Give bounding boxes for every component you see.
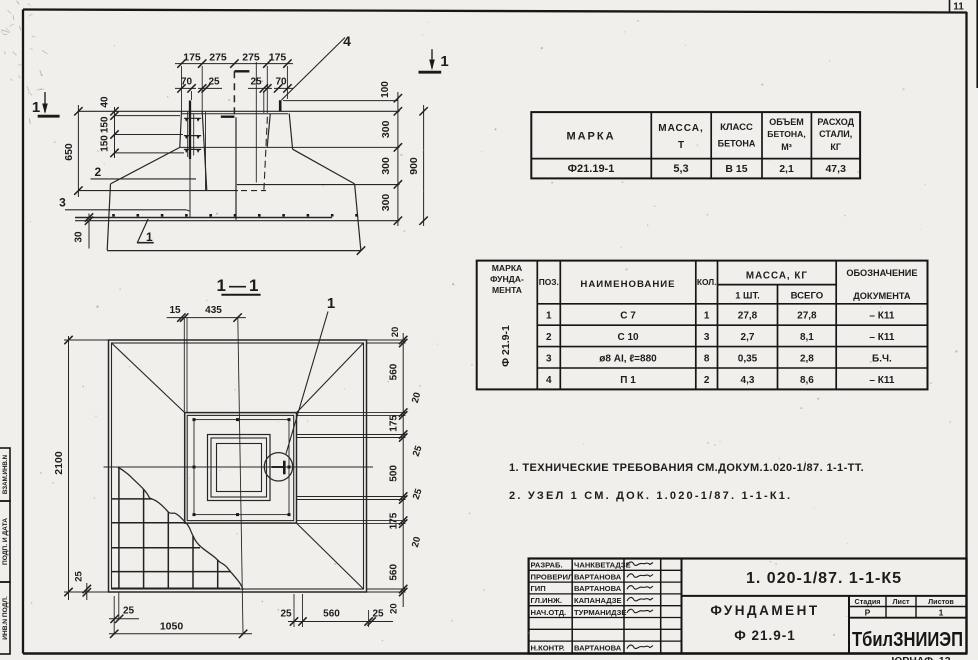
section: left foundation pedestal left edge bbox=[180, 111, 182, 147]
section: right foundation pedestal left edge dashed bbox=[264, 117, 268, 190]
section: level line 150 lower bbox=[115, 152, 185, 154]
svg-text:КЛАСС: КЛАСС bbox=[720, 122, 753, 133]
section: dimension 25 left bbox=[198, 87, 222, 89]
svg-text:ТУРМАНИДЗЕ: ТУРМАНИДЗЕ bbox=[574, 608, 626, 617]
left margin box ИНВ.N ПОДЛ. bbox=[0, 582, 10, 654]
svg-text:2100: 2100 bbox=[53, 451, 65, 475]
section: level line 300 right bbox=[180, 146, 400, 148]
plan: right chain extension lines bbox=[367, 339, 406, 341]
plan: break line wavy bbox=[118, 467, 243, 590]
svg-text:27,8: 27,8 bbox=[797, 311, 817, 322]
svg-text:– К11: – К11 bbox=[869, 332, 894, 343]
svg-text:Листов: Листов bbox=[928, 597, 954, 606]
svg-text:Лист: Лист bbox=[893, 597, 910, 606]
title block name cell bbox=[848, 596, 850, 654]
section: top dimension line 175 275 275 175 bbox=[175, 63, 293, 65]
svg-text:500: 500 bbox=[389, 465, 400, 482]
svg-text:МАРКА: МАРКА bbox=[492, 263, 523, 273]
section: level line 150 upper bbox=[115, 134, 184, 136]
svg-text:1: 1 bbox=[146, 230, 153, 244]
section: deep pit bottom line bbox=[107, 250, 361, 252]
table 2: column lines bbox=[536, 261, 538, 390]
svg-text:1: 1 bbox=[939, 608, 944, 618]
svg-text:НАЧ.ОТД.: НАЧ.ОТД. bbox=[531, 608, 567, 617]
svg-text:ГЛ.ИНЖ.: ГЛ.ИНЖ. bbox=[531, 596, 562, 605]
svg-text:ФУНДАМЕНТ: ФУНДАМЕНТ bbox=[710, 603, 819, 618]
plan: diagonal bottom-right bbox=[297, 523, 364, 589]
svg-text:2: 2 bbox=[546, 332, 552, 343]
svg-text:11: 11 bbox=[953, 2, 964, 13]
svg-text:435: 435 bbox=[205, 305, 222, 316]
scan noise bbox=[624, 31, 625, 32]
svg-text:175: 175 bbox=[389, 512, 400, 529]
svg-text:560: 560 bbox=[389, 564, 400, 581]
svg-text:В 15: В 15 bbox=[725, 163, 747, 175]
svg-text:3: 3 bbox=[59, 196, 66, 210]
section: dimension 25 right bbox=[248, 87, 272, 89]
svg-text:1 ШТ.: 1 ШТ. bbox=[735, 290, 760, 301]
svg-text:ВАРТАНОВА: ВАРТАНОВА bbox=[574, 644, 622, 653]
section: stub top line 100 bbox=[283, 100, 398, 102]
section: position marker 1 triangle bbox=[137, 219, 148, 243]
svg-text:ВАРТАНОВА: ВАРТАНОВА bbox=[574, 572, 622, 581]
svg-text:Ф 21.9-1: Ф 21.9-1 bbox=[734, 628, 796, 643]
section: level line 40 bbox=[115, 115, 181, 117]
svg-text:– К11: – К11 bbox=[869, 375, 894, 386]
drawing frame bbox=[23, 10, 967, 13]
svg-text:МЕНТА: МЕНТА bbox=[492, 285, 522, 295]
svg-text:КОЛ.: КОЛ. bbox=[697, 277, 717, 287]
section: leader 4 line bbox=[282, 38, 346, 101]
svg-text:МАССА, КГ: МАССА, КГ bbox=[746, 271, 808, 282]
svg-text:150: 150 bbox=[100, 116, 111, 133]
svg-text:ø8 АI, ℓ=880: ø8 АI, ℓ=880 bbox=[599, 354, 657, 365]
svg-text:С 10: С 10 bbox=[617, 332, 639, 343]
svg-text:8,1: 8,1 bbox=[800, 332, 814, 343]
svg-text:2,1: 2,1 bbox=[779, 163, 794, 175]
svg-text:275: 275 bbox=[242, 52, 260, 64]
svg-text:ПОДП. И ДАТА: ПОДП. И ДАТА bbox=[2, 518, 9, 565]
section: dimension chain 650 left bbox=[77, 105, 79, 197]
plan: outer square outer line bbox=[109, 340, 367, 592]
svg-text:Ф21.19-1: Ф21.19-1 bbox=[568, 163, 615, 175]
svg-text:ОБОЗНАЧЕНИЕ: ОБОЗНАЧЕНИЕ bbox=[846, 268, 917, 278]
svg-text:1050: 1050 bbox=[160, 621, 184, 633]
svg-text:300: 300 bbox=[380, 120, 392, 138]
svg-text:М³: М³ bbox=[781, 142, 792, 152]
table 2: header lines bbox=[718, 284, 837, 286]
svg-text:300: 300 bbox=[380, 157, 392, 175]
section: extension line left pedestal left bbox=[181, 66, 183, 111]
section: extension line 70 left bbox=[191, 91, 193, 100]
section: anchor stub right thick bbox=[279, 100, 282, 111]
plan: bottom dimension 25 left bbox=[109, 618, 139, 620]
section: tie hooks bbox=[184, 117, 201, 119]
svg-text:1: 1 bbox=[546, 311, 552, 322]
svg-text:2: 2 bbox=[704, 375, 710, 386]
svg-text:25: 25 bbox=[208, 77, 220, 88]
section: column edge / deep slab left edge bbox=[235, 117, 237, 220]
table 1: characteristics table bbox=[531, 112, 860, 178]
svg-text:275: 275 bbox=[209, 52, 227, 64]
svg-text:175: 175 bbox=[389, 415, 400, 432]
svg-text:8,6: 8,6 bbox=[800, 375, 814, 386]
svg-text:20: 20 bbox=[390, 327, 401, 338]
section: right foundation slope bbox=[293, 149, 355, 184]
svg-text:3: 3 bbox=[546, 354, 552, 365]
svg-text:27,8: 27,8 bbox=[738, 311, 758, 322]
section: extension line right pedestal left bbox=[266, 66, 268, 113]
section: dimension 30 bbox=[88, 214, 90, 249]
plan: horizontal centre line bbox=[104, 466, 374, 468]
svg-text:15: 15 bbox=[169, 305, 181, 316]
svg-text:ЧАНКВЕТАДЗЕ: ЧАНКВЕТАДЗЕ bbox=[574, 561, 631, 570]
svg-text:1: 1 bbox=[327, 295, 335, 312]
svg-text:Р: Р bbox=[865, 608, 871, 618]
section: extension line right pedestal right bbox=[286, 66, 288, 99]
title block vertical divider bbox=[681, 559, 683, 654]
plan: bottom dimension 1050 bbox=[109, 633, 252, 635]
svg-text:2,7: 2,7 bbox=[741, 332, 755, 343]
section: rebar line b bbox=[193, 114, 195, 156]
svg-text:560: 560 bbox=[389, 363, 400, 380]
plan: bottom extension lines bbox=[293, 594, 295, 627]
svg-text:25: 25 bbox=[250, 77, 262, 88]
svg-text:3: 3 bbox=[704, 332, 710, 343]
svg-text:150: 150 bbox=[100, 135, 111, 152]
svg-text:ПРОВЕРИЛ: ПРОВЕРИЛ bbox=[531, 572, 574, 581]
section mark right: arrow and bar bbox=[419, 71, 442, 74]
svg-text:40: 40 bbox=[100, 96, 111, 108]
svg-text:БЕТОНА: БЕТОНА bbox=[718, 139, 756, 149]
svg-text:100: 100 bbox=[380, 81, 391, 98]
svg-text:1: 1 bbox=[704, 311, 710, 322]
section: rebar dots in slab bbox=[112, 214, 115, 217]
plan: mesh grid verticals bbox=[118, 468, 120, 589]
plan: detail symbol horizontal bbox=[272, 466, 284, 468]
section: right dimension chain 100 300 300 300 bbox=[397, 92, 399, 226]
plan: socket outer square bbox=[208, 435, 271, 501]
svg-text:ФУНДА-: ФУНДА- bbox=[490, 274, 524, 284]
plan: left dimension 2100 bbox=[68, 336, 70, 600]
plan: bottom dimension 25 560 25 bbox=[288, 621, 393, 623]
svg-text:300: 300 bbox=[380, 194, 392, 212]
section: column axis dashed bbox=[233, 71, 235, 116]
svg-text:25: 25 bbox=[280, 609, 292, 620]
svg-text:8: 8 bbox=[704, 354, 710, 365]
svg-text:1. ТЕХНИЧЕСКИЕ ТРЕБОВАНИЯ СМ: 1. ТЕХНИЧЕСКИЕ ТРЕБОВАНИЯ СМ.ДОКУМ.1.020… bbox=[509, 462, 864, 474]
section: column centre thin line bbox=[255, 62, 257, 183]
svg-text:Т: Т bbox=[678, 140, 684, 151]
section: anchor bolt left thick bbox=[189, 101, 191, 160]
plan: detail symbol bar bbox=[283, 461, 286, 475]
section: right foundation side edge bbox=[355, 184, 361, 251]
section: slab bottom lower line bbox=[75, 220, 400, 222]
plan: top dimension 15 435 bbox=[167, 317, 246, 319]
svg-text:– К11: – К11 bbox=[869, 311, 894, 322]
section: column break bracket top bbox=[234, 70, 249, 72]
plan: detail leader line bbox=[286, 312, 328, 454]
svg-text:СТАЛИ,: СТАЛИ, bbox=[819, 129, 852, 139]
section: dimension 70 left bbox=[175, 87, 196, 89]
section: left foundation pedestal right edge bbox=[202, 111, 207, 190]
svg-text:5,3: 5,3 bbox=[673, 163, 688, 175]
title block signatures bbox=[627, 562, 653, 566]
title block stage list cells bbox=[849, 606, 967, 608]
svg-text:БЕТОНА,: БЕТОНА, bbox=[767, 129, 805, 139]
section: pedestal top inner line bbox=[181, 113, 288, 115]
svg-text:1—1: 1—1 bbox=[217, 276, 262, 295]
section: right foundation pedestal right edge bbox=[289, 113, 292, 149]
svg-text:Б.Ч.: Б.Ч. bbox=[872, 354, 892, 365]
svg-text:70: 70 bbox=[275, 77, 287, 88]
svg-text:1: 1 bbox=[440, 53, 448, 70]
svg-text:ВАРТАНОВА: ВАРТАНОВА bbox=[574, 584, 622, 593]
svg-text:ЮРНАФ. 12: ЮРНАФ. 12 bbox=[891, 655, 950, 660]
svg-text:2: 2 bbox=[94, 165, 101, 179]
section: extension line left pedestal right bbox=[201, 66, 203, 111]
plan: vertical centre line bbox=[238, 318, 243, 633]
section mark left: arrow and bar bbox=[38, 115, 60, 118]
svg-text:4: 4 bbox=[343, 33, 351, 49]
title block document number bbox=[682, 595, 967, 597]
plan: right dimension chain bbox=[402, 333, 404, 607]
section: level dimension column 40 150 150 bbox=[114, 107, 116, 158]
section: dimension 70 right bbox=[274, 87, 293, 89]
svg-text:30: 30 bbox=[74, 231, 85, 243]
svg-text:РАСХОД: РАСХОД bbox=[817, 117, 854, 127]
svg-text:2. УЗЕЛ 1 СМ. ДОК. 1.020-1: 2. УЗЕЛ 1 СМ. ДОК. 1.020-1/87. 1-1-К1. bbox=[509, 490, 792, 502]
svg-text:25: 25 bbox=[74, 571, 85, 582]
section: column break bracket bottom bbox=[221, 115, 235, 117]
left margin box ПОДП. И ДАТА bbox=[0, 501, 10, 582]
svg-text:П 1: П 1 bbox=[620, 375, 636, 386]
section: left foundation slope bbox=[111, 147, 180, 184]
svg-text:ВЗАМ.ИНВ.N: ВЗАМ.ИНВ.N bbox=[2, 454, 9, 494]
svg-text:47,3: 47,3 bbox=[825, 163, 846, 175]
plan: socket middle square bbox=[211, 438, 267, 497]
plan: socket inner square bbox=[217, 444, 262, 492]
section: right foundation pedestal left edge solid bbox=[267, 114, 270, 148]
page number box 11 bbox=[949, 0, 951, 12]
svg-text:560: 560 bbox=[323, 609, 340, 620]
section: deep foundation slab top bbox=[237, 184, 400, 186]
svg-text:ИНВ.N ПОДЛ.: ИНВ.N ПОДЛ. bbox=[2, 596, 9, 640]
svg-text:4: 4 bbox=[546, 375, 552, 386]
svg-text:С 7: С 7 bbox=[620, 311, 636, 322]
plan: detail circle bbox=[264, 453, 292, 481]
left margin box ВЗАМ.ИНВ.N bbox=[0, 448, 10, 501]
svg-text:МАРКА: МАРКА bbox=[566, 131, 615, 143]
section: rebar line c bbox=[205, 112, 207, 190]
svg-text:РАЗРАБ.: РАЗРАБ. bbox=[531, 561, 563, 570]
section: slab bottom upper line bbox=[75, 217, 332, 219]
section: dimension 900 bbox=[423, 105, 425, 226]
section: anchor bolt left thin continuation bbox=[189, 159, 191, 217]
svg-text:650: 650 bbox=[63, 143, 75, 161]
plan: middle square outer line bbox=[185, 413, 297, 523]
section: ground line bbox=[78, 110, 399, 112]
svg-text:4,3: 4,3 bbox=[741, 375, 755, 386]
table 2: specification table bbox=[477, 261, 928, 390]
svg-text:1: 1 bbox=[32, 99, 40, 116]
svg-text:Н.КОНТР.: Н.КОНТР. bbox=[531, 644, 565, 653]
svg-text:2,8: 2,8 bbox=[800, 354, 814, 365]
plan: left dimension 25 bbox=[86, 583, 88, 600]
svg-text:ТбилЗНИИЭП: ТбилЗНИИЭП bbox=[852, 628, 963, 651]
section: left foundation side below slope bbox=[107, 184, 110, 250]
svg-text:175: 175 bbox=[183, 52, 201, 64]
svg-text:ГИП: ГИП bbox=[531, 584, 546, 593]
svg-text:КАПАНАДЗЕ: КАПАНАДЗЕ bbox=[574, 596, 622, 605]
plan: diagonal top-left bbox=[112, 343, 185, 413]
table 2: row lines bbox=[537, 324, 927, 326]
svg-text:МАССА,: МАССА, bbox=[658, 123, 704, 134]
title block signature rows bbox=[529, 569, 682, 571]
plan: rebar dots bbox=[193, 418, 196, 421]
svg-text:НАИМЕНОВАНИЕ: НАИМЕНОВАНИЕ bbox=[580, 279, 675, 290]
svg-text:70: 70 bbox=[181, 77, 193, 88]
section: shallow slab top dashed continuation bbox=[241, 190, 266, 192]
plan: outer square inner line bbox=[112, 343, 364, 589]
svg-text:25: 25 bbox=[123, 606, 135, 617]
svg-text:ВСЕГО: ВСЕГО bbox=[791, 291, 824, 302]
section: extension line 25 right bbox=[263, 91, 265, 113]
svg-text:ДОКУМЕНТА: ДОКУМЕНТА bbox=[853, 291, 911, 301]
section: shallow foundation slab top solid bbox=[78, 190, 238, 192]
svg-text:900: 900 bbox=[408, 157, 420, 175]
title block outline bbox=[529, 559, 967, 654]
svg-text:КГ: КГ bbox=[830, 142, 841, 152]
section: rebar line a bbox=[187, 112, 189, 157]
svg-text:0,35: 0,35 bbox=[738, 354, 758, 365]
plan: mesh grid horizontals bbox=[112, 498, 152, 500]
plan: extension lines to top dimension bbox=[183, 318, 185, 413]
svg-text:20: 20 bbox=[389, 603, 400, 614]
svg-text:175: 175 bbox=[269, 52, 287, 64]
svg-text:ОБЪЕМ: ОБЪЕМ bbox=[769, 117, 803, 127]
svg-text:25: 25 bbox=[372, 609, 384, 620]
svg-text:Стадия: Стадия bbox=[855, 597, 881, 606]
svg-text:1. 020-1/87. 1-1-К5: 1. 020-1/87. 1-1-К5 bbox=[746, 570, 902, 587]
svg-text:Ф 21.9-1: Ф 21.9-1 bbox=[500, 325, 512, 367]
svg-text:ПОЗ.: ПОЗ. bbox=[539, 277, 559, 287]
title block signature columns bbox=[571, 559, 573, 654]
plan: rebar square bbox=[194, 420, 289, 515]
plan: middle square inner line bbox=[187, 415, 294, 520]
plan: diagonal top-right bbox=[297, 343, 364, 413]
